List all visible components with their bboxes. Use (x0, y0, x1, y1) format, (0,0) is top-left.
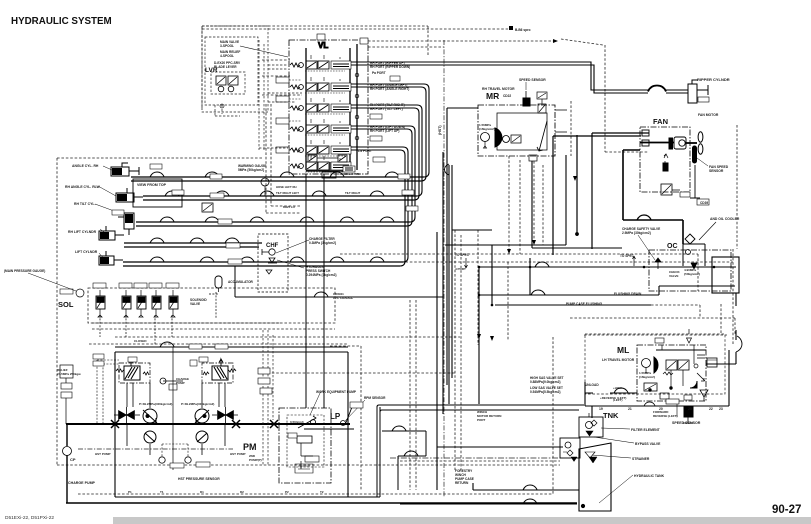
svg-text:P=39.2MPa{400kg/cm2}: P=39.2MPa{400kg/cm2} (139, 402, 173, 406)
svg-text:BLADE LEVER: BLADE LEVER (214, 65, 237, 69)
svg-text:4-SPOOL: 4-SPOOL (220, 54, 234, 58)
svg-text:{50kg/cm2}: {50kg/cm2} (684, 272, 701, 276)
svg-text:SPEED SENSOR: SPEED SENSOR (672, 421, 701, 425)
svg-text:P1: P1 (128, 490, 132, 494)
svg-text:SPEED SENSOR: SPEED SENSOR (519, 78, 546, 82)
svg-text:21: 21 (628, 407, 632, 411)
svg-text:FLUSHING DRAIN: FLUSHING DRAIN (614, 292, 642, 296)
svg-text:{16kg/cm2}: {16kg/cm2} (639, 375, 656, 379)
svg-text:VALVE: VALVE (669, 274, 679, 278)
svg-text:CD22: CD22 (503, 94, 511, 98)
svg-text:SENSOR: SENSOR (709, 169, 724, 173)
svg-text:LS PORT: LS PORT (358, 149, 372, 153)
svg-text:RIPPER CYLNDR: RIPPER CYLNDR (697, 77, 730, 82)
svg-text:P=39.2MPa{400kg/cm2}: P=39.2MPa{400kg/cm2} (181, 402, 215, 406)
svg-text:CP: CP (70, 457, 76, 462)
svg-text:2.9MPa {30kg/cm2}: 2.9MPa {30kg/cm2} (622, 231, 652, 235)
svg-text:CLOSED: CLOSED (134, 339, 147, 343)
svg-text:RH PORT (LIFT UP): RH PORT (LIFT UP) (370, 129, 399, 133)
svg-text:B-B6 spec: B-B6 spec (515, 28, 531, 32)
svg-text:LH TRAVEL MOTOR: LH TRAVEL MOTOR (602, 358, 635, 362)
svg-text:23: 23 (719, 407, 723, 411)
svg-text:STRAINER: STRAINER (632, 457, 650, 461)
svg-text:HST PUMP: HST PUMP (230, 452, 246, 456)
svg-text:PUMP CASE FLUSHING: PUMP CASE FLUSHING (566, 302, 603, 306)
svg-text:0.294MPa {3kg/cm2}: 0.294MPa {3kg/cm2} (306, 273, 337, 277)
svg-text:RH PORT (TILT LEFT): RH PORT (TILT LEFT) (370, 107, 403, 111)
svg-text:RETURN: RETURN (455, 481, 469, 485)
svg-text:PORT: PORT (477, 418, 486, 422)
svg-text:T2: T2 (320, 490, 324, 494)
svg-text:AND OIL COOLER: AND OIL COOLER (710, 217, 740, 221)
svg-text:D1: D1 (200, 490, 204, 494)
svg-text:HOSE LEFT RH: HOSE LEFT RH (340, 172, 361, 176)
svg-text:4 PORT: 4 PORT (455, 267, 466, 271)
svg-text:RPM SENSOR: RPM SENSOR (364, 396, 386, 400)
svg-text:(HST): (HST) (438, 125, 442, 135)
svg-text:D51EXi-22, D51PXi-22: D51EXi-22, D51PXi-22 (5, 515, 54, 521)
svg-text:+REVERSE (LEFT): +REVERSE (LEFT) (600, 396, 626, 400)
svg-text:RH ANGLE CYL. RLW: RH ANGLE CYL. RLW (65, 185, 101, 189)
svg-text:{16kg/cm2}: {16kg/cm2} (479, 127, 496, 131)
svg-text:HYDRAULIC TANK: HYDRAULIC TANK (634, 474, 665, 478)
svg-text:D2: D2 (240, 490, 244, 494)
svg-text:+HIGH: +HIGH (613, 386, 622, 390)
svg-text:TILT RIGHT: TILT RIGHT (345, 191, 360, 195)
svg-text:Pa PORT: Pa PORT (372, 71, 386, 75)
svg-text:TO SPEC: TO SPEC (455, 253, 470, 257)
svg-text:(MAIN PRESSURE GAUGE): (MAIN PRESSURE GAUGE) (4, 269, 45, 273)
svg-text:HST PRESSURE SENSOR: HST PRESSURE SENSOR (178, 477, 220, 481)
svg-text:HOSE LEFT RH: HOSE LEFT RH (276, 185, 297, 189)
svg-text:FAN: FAN (653, 117, 668, 126)
svg-text:MR: MR (486, 91, 499, 101)
svg-text:FILTER ELEMENT: FILTER ELEMENT (631, 428, 661, 432)
svg-text:VL: VL (318, 41, 328, 50)
svg-text:0.504cm3: 0.504cm3 (290, 420, 304, 424)
svg-text:RH PORT (ANGLE RIGHT): RH PORT (ANGLE RIGHT) (370, 87, 409, 91)
svg-text:REVERSE (LEFT): REVERSE (LEFT) (653, 414, 678, 418)
svg-text:CHARGE PUMP: CHARGE PUMP (68, 481, 96, 485)
svg-text:0.3MPa {3kg/cm2}: 0.3MPa {3kg/cm2} (309, 241, 337, 245)
svg-text:ANGLE CYL. RH: ANGLE CYL. RH (72, 164, 99, 168)
svg-text:LP: LP (330, 412, 341, 421)
svg-text:HYDRAULIC SYSTEM: HYDRAULIC SYSTEM (11, 16, 112, 27)
svg-text:P2: P2 (285, 490, 289, 494)
svg-text:PM: PM (243, 442, 257, 452)
svg-text:WORK EQUIPMENT PUMP: WORK EQUIPMENT PUMP (316, 390, 357, 394)
svg-text:PPC CHARGE: PPC CHARGE (333, 296, 353, 300)
svg-text:T1: T1 (160, 490, 164, 494)
svg-text:22: 22 (709, 407, 713, 411)
svg-text:SOL: SOL (58, 300, 74, 309)
svg-text:RH LIFT CYLNDR: RH LIFT CYLNDR (68, 230, 97, 234)
svg-text:UNLOAD: UNLOAD (585, 383, 599, 387)
svg-text:OC: OC (667, 243, 678, 250)
svg-text:RH TILT CYL.: RH TILT CYL. (74, 202, 95, 206)
svg-text:FAN MOTOR: FAN MOTOR (698, 113, 719, 117)
svg-text:25: 25 (688, 407, 692, 411)
svg-text:RH25 LH: RH25 LH (283, 205, 295, 209)
svg-text:TILT RIGHT LEFT: TILT RIGHT LEFT (276, 191, 299, 195)
svg-text:TO SPEC: TO SPEC (620, 254, 635, 258)
svg-text:CD39: CD39 (700, 201, 708, 205)
svg-text:LIFT CYLNDR: LIFT CYLNDR (75, 250, 98, 254)
svg-text:24.5MPa 250kgw: 24.5MPa 250kgw (57, 372, 81, 376)
svg-text:20: 20 (659, 407, 663, 411)
svg-text:CHF: CHF (266, 243, 279, 249)
svg-text:0.54MPa{5.5kg/cm2}: 0.54MPa{5.5kg/cm2} (530, 390, 561, 394)
svg-text:HST PUMP: HST PUMP (95, 452, 111, 456)
svg-text:VALVE: VALVE (190, 302, 200, 306)
svg-text:PUMP: PUMP (176, 381, 185, 385)
svg-text:TNK: TNK (603, 411, 619, 420)
svg-text:0.88MPa{9.0kg/cm2}: 0.88MPa{9.0kg/cm2} (530, 380, 561, 384)
svg-text:VIEW FROM TOP: VIEW FROM TOP (137, 183, 167, 187)
svg-text:3-SPOOL: 3-SPOOL (220, 44, 234, 48)
svg-text:90-27: 90-27 (772, 504, 801, 516)
svg-text:5MPa {50kg/cm2}: 5MPa {50kg/cm2} (238, 168, 265, 172)
svg-text:PUMP(P): PUMP(P) (249, 458, 262, 462)
svg-text:RH PORT (RIPPER DOWN): RH PORT (RIPPER DOWN) (370, 65, 410, 69)
svg-text:BYPASS VALVE: BYPASS VALVE (635, 442, 661, 446)
svg-text:ACCUMULATOR: ACCUMULATOR (228, 280, 254, 284)
svg-text:ML: ML (617, 345, 629, 355)
